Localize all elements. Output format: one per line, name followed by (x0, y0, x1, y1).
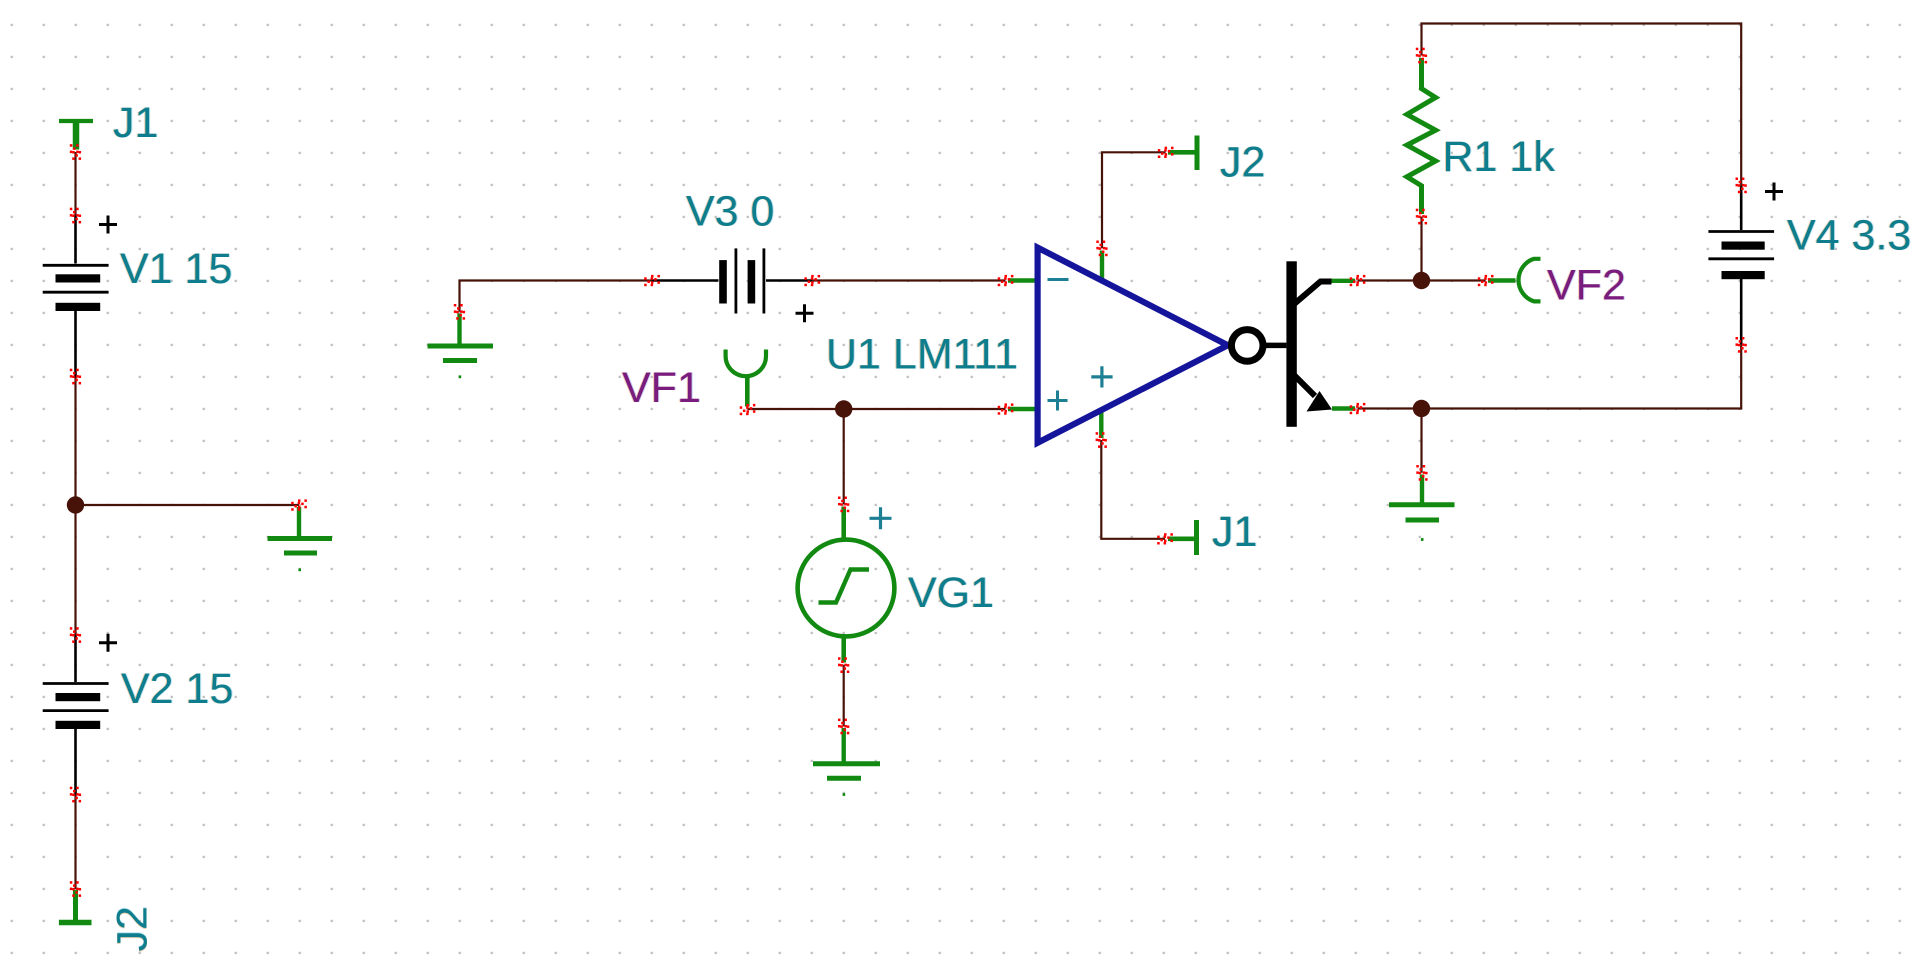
svg-text:J2: J2 (1220, 139, 1265, 187)
svg-text:V3 0: V3 0 (686, 188, 774, 236)
wire node C to VF2 (1422, 279, 1486, 281)
plus mark power (1091, 366, 1112, 387)
node D junction (1413, 400, 1430, 417)
wire VG1 to ground G3 (843, 665, 845, 726)
battery V1 (43, 216, 109, 377)
lead op-amp inverting input (1008, 278, 1038, 282)
wire R1 top to V4 top (1422, 24, 1742, 186)
plus mark of V3 (796, 304, 814, 322)
op-amp U1 LM111 (1038, 248, 1228, 443)
lead op-amp bottom pin (1099, 410, 1103, 438)
connector J2 bottom-left (59, 890, 92, 923)
plus mark of V4 (1765, 183, 1783, 201)
svg-text:J1: J1 (113, 99, 158, 147)
pin markers (70, 48, 1747, 897)
wire collector to node C (1358, 279, 1422, 281)
transistor Q1 (1263, 261, 1332, 427)
wire V2 to J2 (74, 795, 76, 890)
output open-collector circle (1231, 330, 1263, 362)
wire J1 to V1 (74, 152, 76, 216)
svg-text:V2 15: V2 15 (121, 665, 233, 713)
svg-text:VG1: VG1 (908, 569, 994, 617)
svg-text:R1 1k: R1 1k (1443, 133, 1556, 181)
svg-text:VF2: VF2 (1547, 262, 1626, 310)
connector J1 top-left (59, 121, 93, 150)
node C junction (1413, 272, 1430, 289)
svg-text:V4 3.3: V4 3.3 (1787, 212, 1911, 260)
wire emitter to node D (1358, 407, 1422, 409)
probe VF1 (726, 350, 766, 407)
lead op-amp top pin (1100, 251, 1104, 281)
battery V2 (43, 635, 109, 795)
wire node D to ground G4 (1420, 409, 1422, 473)
wire V1 to node A (74, 377, 76, 506)
lead transistor emitter (1332, 406, 1355, 410)
minus mark at inverting input (1048, 278, 1069, 281)
wire op-amp bottom pin to J1 connector (1101, 440, 1165, 539)
wire ground G2 to V3 (460, 281, 653, 312)
wire VF1 to op-amp non-inverting input (748, 408, 1006, 410)
battery V4 (1708, 185, 1774, 344)
wire node A to ground G1 (76, 504, 300, 506)
plus mark of VG1 (870, 507, 892, 529)
svg-text:VF1: VF1 (622, 364, 701, 412)
wire node B to VG1 (843, 409, 845, 504)
wire node A to V2 (74, 505, 76, 635)
ground G2 (428, 314, 494, 377)
plus mark at non-inverting input (1048, 391, 1068, 411)
svg-text:J1: J1 (1212, 508, 1257, 556)
ground G3 (813, 728, 880, 795)
wire R1 to node C (1420, 217, 1422, 281)
ground G1 (268, 507, 333, 570)
GREEN PIN LEADS (1008, 251, 1355, 439)
voltage source V3 (652, 248, 812, 313)
node B junction (835, 400, 852, 417)
plus mark of V1 (99, 216, 117, 234)
connector J1 right (1168, 520, 1197, 555)
generator VG1 (798, 507, 895, 663)
resistor R1 (1407, 58, 1436, 214)
connector J2 right (1168, 136, 1197, 171)
svg-text:U1 LM111: U1 LM111 (826, 331, 1018, 379)
ground G4 (1389, 475, 1455, 540)
node A junction (67, 496, 84, 513)
wire V3 to op-amp inverting input (812, 279, 1005, 281)
svg-text:V1 15: V1 15 (120, 245, 232, 293)
svg-text:J2: J2 (109, 906, 157, 951)
probe VF2 (1488, 259, 1541, 302)
wire node D to V4 bottom (1422, 345, 1742, 409)
plus mark of V2 (99, 634, 117, 652)
wire op-amp top pin to J2 connector (1102, 152, 1166, 248)
lead op-amp non-inverting input (1008, 407, 1038, 411)
lead transistor collector (1330, 279, 1355, 283)
